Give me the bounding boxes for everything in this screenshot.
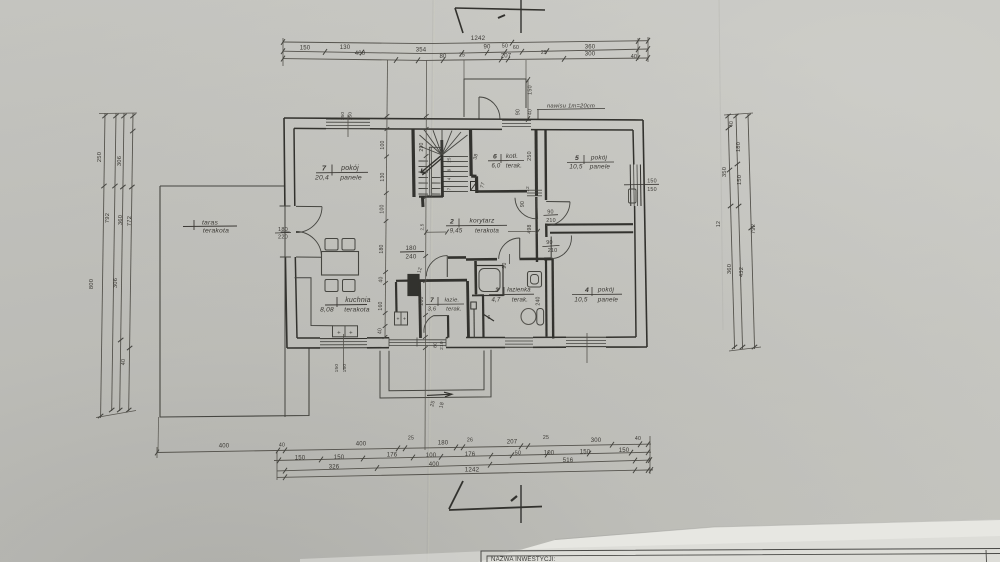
- svg-text:306: 306: [117, 156, 123, 166]
- svg-text:516: 516: [563, 458, 574, 464]
- svg-text:40: 40: [729, 121, 735, 127]
- exterior wall: top inner (with openings): [294, 127, 326, 129]
- svg-text:150: 150: [528, 85, 534, 95]
- exterior wall: top outer: [284, 118, 643, 120]
- svg-text:90: 90: [520, 201, 526, 207]
- svg-text:250: 250: [527, 151, 533, 161]
- svg-text:150: 150: [737, 175, 743, 185]
- svg-text:207: 207: [507, 439, 518, 445]
- kitchen pillar: [408, 275, 419, 296]
- porch corner drop ticks: [463, 60, 465, 79]
- svg-text:50: 50: [502, 44, 508, 50]
- exterior wall: left outer: [284, 118, 287, 348]
- svg-text:40: 40: [121, 359, 127, 365]
- duct cap below room4 door: [544, 258, 553, 261]
- svg-text:80: 80: [433, 342, 439, 348]
- interior chain V2: [425, 60, 427, 450]
- svg-text:kuchnia: kuchnia: [345, 297, 371, 304]
- exterior wall: right outer: [643, 120, 647, 347]
- subtle crease right: [719, 0, 723, 330]
- svg-text:panele: panele: [589, 164, 611, 171]
- svg-text:6: 6: [493, 154, 497, 161]
- svg-text:panele: panele: [339, 175, 362, 182]
- stairwell bottom edge: [419, 195, 443, 197]
- terrace door leaves: [296, 205, 322, 207]
- svg-text:10,5: 10,5: [569, 164, 582, 171]
- title block right edge: [985, 550, 988, 562]
- room6 door threshold: [527, 189, 542, 191]
- window room4 bottom: [566, 336, 606, 338]
- svg-text:220: 220: [278, 235, 288, 241]
- corridor left wall stub: [421, 197, 425, 207]
- terrace door opening ticks: [280, 205, 291, 207]
- svg-text:180: 180: [406, 245, 417, 252]
- svg-text:40: 40: [279, 443, 285, 449]
- svg-text:150: 150: [334, 364, 340, 373]
- window bathroom bottom: [505, 337, 533, 339]
- svg-text:łazienka: łazienka: [507, 288, 531, 294]
- svg-text:100: 100: [426, 453, 437, 459]
- svg-text:25: 25: [543, 435, 549, 441]
- svg-text:240: 240: [406, 254, 417, 261]
- right dimension chain: [728, 114, 735, 349]
- svg-text:terak.: terak.: [446, 307, 462, 313]
- bathtub: [476, 266, 503, 296]
- svg-text:9: 9: [447, 168, 452, 171]
- svg-text:150: 150: [342, 364, 348, 373]
- svg-text:290: 290: [419, 142, 425, 151]
- interior chain V1: [385, 60, 388, 337]
- door corridor->wc lobby: [446, 256, 448, 277]
- svg-text:90: 90: [546, 240, 552, 246]
- svg-text:+: +: [349, 331, 353, 337]
- stairs treads right flight: [444, 156, 469, 158]
- svg-text:100: 100: [544, 450, 555, 456]
- wc/bath wall: [468, 281, 469, 338]
- exterior wall: right inner: [633, 130, 636, 337]
- white sheet visible along bottom edge: [478, 519, 1000, 562]
- bathroom left wall + flue: [474, 261, 477, 294]
- wall room5/room4 lower face: [550, 231, 633, 234]
- svg-text:12: 12: [716, 221, 722, 227]
- svg-text:40: 40: [378, 328, 384, 334]
- svg-text:1242: 1242: [465, 466, 480, 473]
- svg-text:100: 100: [380, 204, 386, 213]
- svg-text:terakota: terakota: [475, 228, 499, 235]
- kitchen stove: [333, 326, 358, 337]
- svg-text:4: 4: [584, 287, 589, 294]
- svg-text:130: 130: [340, 45, 351, 51]
- svg-text:panele: panele: [597, 297, 619, 304]
- entrance door leaf+arc: [478, 97, 480, 120]
- svg-text:+: +: [337, 331, 341, 337]
- paper fold crease (vertical centre): [427, 0, 433, 562]
- svg-text:150: 150: [348, 112, 354, 121]
- svg-text:4,7: 4,7: [492, 298, 501, 304]
- svg-text:180: 180: [438, 440, 449, 446]
- stair flight separation lines: [428, 147, 431, 197]
- svg-text:400: 400: [355, 51, 366, 57]
- svg-text:40: 40: [631, 54, 637, 60]
- toilet: [521, 309, 536, 325]
- svg-text:3,6: 3,6: [428, 307, 437, 313]
- corridor right wall (duct side A): [535, 197, 538, 262]
- svg-text:60: 60: [513, 45, 519, 51]
- top dimension chain: [283, 41, 648, 44]
- svg-text:326: 326: [329, 465, 340, 471]
- svg-text:50: 50: [515, 451, 521, 457]
- chairs: [325, 239, 338, 251]
- svg-text:150: 150: [619, 448, 630, 454]
- svg-text:350: 350: [722, 167, 728, 177]
- door room4: [550, 237, 552, 260]
- bathroom/room4 wall west face: [551, 259, 554, 339]
- svg-text:6: 6: [487, 315, 490, 321]
- rear door threshold: [389, 339, 446, 341]
- svg-text:240: 240: [536, 296, 542, 305]
- svg-text:taras: taras: [202, 220, 219, 227]
- svg-text:terakota: terakota: [344, 307, 370, 314]
- porch depth dim 150: [527, 79, 529, 120]
- svg-text:306: 306: [113, 278, 119, 288]
- svg-text:pokój: pokój: [340, 165, 359, 172]
- svg-text:7: 7: [430, 297, 434, 304]
- svg-text:pokój: pokój: [597, 287, 615, 294]
- svg-text:360: 360: [118, 215, 124, 225]
- svg-text:160: 160: [378, 301, 384, 310]
- svg-text:792: 792: [751, 224, 757, 234]
- svg-text:80: 80: [439, 54, 447, 60]
- kitchen east wall upper: [395, 282, 398, 312]
- svg-text:150: 150: [647, 187, 657, 193]
- room6 bottom wall: [476, 190, 527, 193]
- svg-text:800: 800: [89, 279, 95, 289]
- svg-text:354: 354: [416, 48, 427, 54]
- svg-text:360: 360: [585, 45, 596, 51]
- svg-text:40: 40: [379, 277, 385, 283]
- corridor bottom wall left part: [448, 256, 466, 259]
- svg-text:360: 360: [727, 264, 733, 274]
- svg-text:200: 200: [419, 296, 425, 305]
- svg-text:176: 176: [465, 452, 476, 458]
- svg-text:NAZWA INWESTYCJI:: NAZWA INWESTYCJI:: [491, 556, 556, 562]
- svg-text:432: 432: [739, 267, 745, 277]
- svg-text:180: 180: [278, 227, 288, 233]
- svg-text:300: 300: [585, 52, 596, 58]
- title block: NAZWA INWESTYCJI: [481, 549, 1000, 562]
- svg-text:25: 25: [447, 157, 452, 163]
- stairs up arrows (double): [421, 155, 442, 173]
- svg-text:150: 150: [580, 449, 591, 455]
- svg-text:terak.: terak.: [506, 164, 522, 170]
- door room6->corridor: [537, 198, 538, 219]
- svg-text:25: 25: [459, 53, 465, 59]
- svg-text:40: 40: [528, 109, 534, 115]
- svg-text:150: 150: [300, 46, 311, 52]
- terrace door arcs: [296, 207, 322, 233]
- svg-text:180: 180: [379, 244, 385, 253]
- svg-text:7: 7: [447, 187, 452, 190]
- kitchen/wc wall: [420, 282, 421, 338]
- svg-text:12: 12: [525, 186, 531, 192]
- svg-text:300: 300: [591, 438, 602, 444]
- svg-text:pokój: pokój: [590, 155, 608, 162]
- svg-text:207: 207: [501, 53, 512, 59]
- svg-text:3: 3: [495, 287, 499, 294]
- svg-text:1242: 1242: [471, 35, 486, 42]
- svg-text:6,0: 6,0: [492, 164, 501, 170]
- svg-text:210: 210: [548, 248, 558, 254]
- svg-text:8,08: 8,08: [320, 307, 334, 314]
- svg-text:kotł.: kotł.: [506, 153, 518, 160]
- svg-text:25: 25: [408, 436, 414, 442]
- svg-text:210: 210: [546, 218, 556, 224]
- radiator room5: [629, 189, 637, 203]
- wc lobby top walls: [396, 280, 408, 282]
- door wc: [434, 315, 450, 317]
- svg-text:210: 210: [439, 341, 445, 350]
- steps arrow: [427, 394, 452, 395]
- stairs centre stringer: [440, 140, 444, 197]
- svg-text:130: 130: [380, 172, 386, 181]
- entrance porch outline: [464, 79, 526, 117]
- svg-text:150: 150: [295, 455, 306, 461]
- stairs treads left flight (dashed): [419, 160, 429, 162]
- svg-text:łazie.: łazie.: [445, 298, 460, 304]
- door room5: [546, 201, 570, 203]
- svg-text:772: 772: [127, 216, 133, 226]
- window room5 right (150/150): [629, 165, 632, 207]
- door bathroom: [519, 238, 521, 259]
- svg-text:40: 40: [635, 436, 641, 442]
- left dimension chain: [101, 113, 105, 418]
- svg-text:90: 90: [516, 109, 522, 115]
- exterior wall: bottom outer: [287, 347, 647, 348]
- washbasin: [528, 272, 542, 288]
- window room7 top (150/150): [326, 118, 370, 120]
- svg-text:20,4: 20,4: [314, 175, 329, 182]
- svg-text:100: 100: [380, 140, 386, 149]
- rear porch outline: [380, 350, 491, 398]
- svg-text:90: 90: [483, 45, 491, 51]
- exterior wall: left inner: [294, 128, 297, 338]
- room5 left wall (duct side B): [544, 130, 547, 238]
- svg-text:25: 25: [541, 50, 547, 56]
- dining table: [322, 252, 359, 276]
- taras (terrace) outline: [160, 185, 285, 187]
- kitchen counter left: [295, 278, 333, 326]
- svg-text:2: 2: [449, 219, 454, 226]
- svg-text:792: 792: [105, 213, 111, 223]
- entrance threshold lines: [502, 120, 531, 122]
- svg-text:150: 150: [340, 112, 346, 121]
- svg-text:250: 250: [97, 152, 103, 162]
- svg-text:4: 4: [447, 177, 452, 180]
- bathroom top wall: [466, 257, 551, 260]
- exterior wall: bottom inner: [297, 337, 636, 338]
- svg-text:400: 400: [429, 462, 440, 468]
- svg-text:9,45: 9,45: [450, 228, 463, 235]
- svg-text:korytarz: korytarz: [469, 218, 495, 225]
- svg-text:2,5: 2,5: [420, 223, 425, 230]
- sheet corner mark bottom (north arrow sketch): [449, 481, 463, 509]
- svg-text:terak.: terak.: [512, 298, 528, 304]
- svg-text:5: 5: [575, 155, 579, 162]
- wc door wall stub: [447, 316, 449, 338]
- sheet corner mark top: [455, 8, 545, 10]
- bottom dimension chain: [157, 444, 651, 452]
- room6 right wall: [535, 130, 539, 196]
- svg-text:400: 400: [356, 442, 367, 448]
- stairwell/room6 wall: [471, 129, 477, 193]
- chimney room6: [471, 182, 478, 191]
- svg-text:176: 176: [387, 453, 398, 459]
- window kitchen bottom (150/150): [320, 338, 367, 340]
- svg-text:terakota: terakota: [203, 228, 229, 235]
- svg-text:7: 7: [322, 164, 327, 173]
- svg-text:400: 400: [219, 444, 230, 450]
- svg-text:150: 150: [334, 455, 345, 461]
- bathroom/room4 wall east face: [545, 260, 548, 337]
- kitchen sink unit: [395, 312, 408, 325]
- svg-text:+: +: [403, 317, 406, 323]
- svg-text:498: 498: [527, 224, 533, 233]
- svg-text:10,5: 10,5: [574, 297, 587, 304]
- corridor length chain: [426, 231, 446, 233]
- svg-text:180: 180: [736, 142, 742, 152]
- svg-text:150: 150: [647, 179, 657, 185]
- stairs winder fan: [420, 135, 443, 155]
- wall living/stair-hall: [413, 129, 414, 197]
- taras corner drop line: [157, 417, 160, 452]
- svg-text:26: 26: [467, 438, 473, 444]
- svg-text:+: +: [396, 317, 399, 323]
- wall room5/room4 upper face: [546, 223, 633, 226]
